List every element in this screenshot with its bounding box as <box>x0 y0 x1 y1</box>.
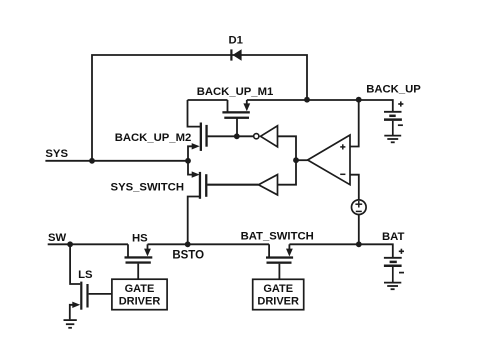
svg-text:SW: SW <box>48 232 67 244</box>
svg-text:SYS_SWITCH: SYS_SWITCH <box>111 181 184 193</box>
svg-text:DRIVER: DRIVER <box>257 295 299 307</box>
svg-text:BACK_UP_M1: BACK_UP_M1 <box>197 86 274 98</box>
svg-text:SYS: SYS <box>45 148 68 160</box>
svg-text:BACK_UP: BACK_UP <box>366 83 421 95</box>
svg-text:DRIVER: DRIVER <box>119 295 161 307</box>
svg-text:HS: HS <box>132 233 148 245</box>
svg-text:GATE: GATE <box>263 283 293 295</box>
svg-text:BAT: BAT <box>382 231 404 243</box>
svg-text:LS: LS <box>78 269 93 281</box>
svg-text:BACK_UP_M2: BACK_UP_M2 <box>115 132 192 144</box>
svg-text:BAT_SWITCH: BAT_SWITCH <box>241 230 314 242</box>
svg-text:D1: D1 <box>228 35 242 47</box>
svg-text:BSTO: BSTO <box>172 249 204 261</box>
svg-text:GATE: GATE <box>125 283 155 295</box>
